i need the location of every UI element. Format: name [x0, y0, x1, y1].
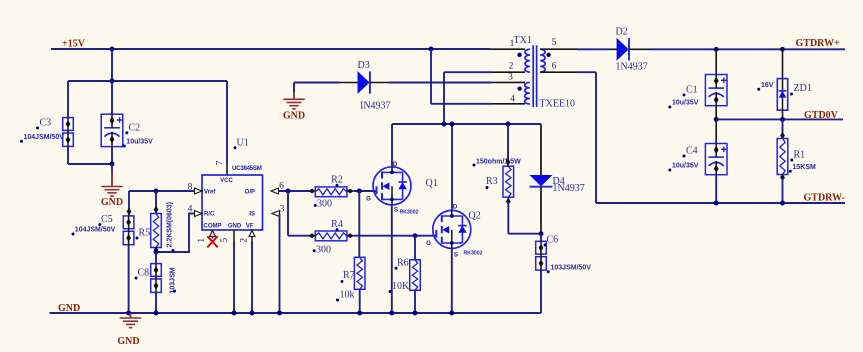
wire to ground D3 [293, 83, 295, 100]
wire D4 top lead [540, 124, 542, 175]
resistor R4 [308, 233, 316, 238]
svg-text:IN4937: IN4937 [360, 100, 391, 111]
node junction R2/R7 [357, 189, 362, 194]
wire Q1 source [391, 205, 393, 314]
node junction Q1 source gnd [389, 311, 394, 316]
wire C1 top lead [715, 49, 717, 75]
node junction R5/C8/RC [154, 250, 159, 255]
node junction C1/C4 [714, 117, 719, 122]
wire ZD1 top lead [782, 49, 784, 79]
svg-text:RK3002: RK3002 [400, 210, 419, 216]
capacitor C1 [705, 75, 727, 106]
pin 1 lead COMP [212, 230, 214, 239]
pin 4 arrow [195, 211, 203, 217]
node junction C2 top [110, 79, 115, 84]
svg-text:R6: R6 [397, 258, 409, 269]
svg-text:300: 300 [316, 245, 331, 256]
wire ground rail [50, 312, 542, 314]
diode D2 lead anode [609, 48, 617, 50]
diode D3 lead anode [339, 82, 358, 84]
svg-text:C8: C8 [138, 268, 150, 279]
node junction C5 gnd [126, 311, 131, 316]
wire C4 top lead [715, 119, 717, 144]
wire Vref net [129, 190, 195, 192]
svg-text:10u/35V: 10u/35V [672, 163, 699, 170]
svg-text:104JSM/50V: 104JSM/50V [24, 134, 65, 141]
svg-text:GTDRW+: GTDRW+ [796, 38, 841, 49]
node junction pin5 gnd [232, 311, 237, 316]
wire VCC distribution [68, 80, 227, 82]
wire VCC pin7 [226, 81, 228, 163]
wire C6 bottom lead [540, 270, 542, 313]
wire +15V to TX pin4 [430, 49, 432, 104]
wire GTDRW+ rail [650, 48, 845, 50]
wire TX pin6 to GTDRW- [577, 71, 596, 73]
svg-text:R/C: R/C [204, 212, 215, 218]
node junction C1 top [714, 47, 719, 52]
wire C2 branch drop [111, 49, 113, 81]
svg-text:VF: VF [246, 224, 254, 230]
svg-text:D2: D2 [616, 27, 628, 38]
pin 2 lead VF [251, 230, 253, 242]
ground symbol under C2 [101, 186, 123, 188]
svg-text:D: D [453, 204, 458, 211]
node junction TX pin2 drop [442, 122, 447, 127]
svg-text:Q2: Q2 [469, 211, 481, 222]
winding 3-4 TX1 [525, 82, 530, 104]
svg-text:COMP: COMP [204, 224, 222, 230]
svg-text:G: G [366, 196, 371, 203]
svg-text:Vref: Vref [204, 190, 216, 196]
diode D2 1N4937 [617, 38, 629, 61]
wire R5 top lead [155, 191, 157, 214]
svg-text:GND: GND [101, 197, 123, 208]
resistor R5 [151, 214, 162, 248]
node junction C2/C3 gnd [110, 162, 115, 167]
svg-text:10u/35V: 10u/35V [126, 139, 153, 146]
wire VF pin to rail [251, 241, 253, 313]
pin 7 lead [226, 163, 228, 175]
diode D3 lead cathode [370, 82, 389, 84]
wire IS to gnd rail [279, 214, 281, 314]
op-amp U1 body UC3845SM [202, 175, 263, 230]
zener diode ZD1 [777, 79, 787, 111]
transistor Q1 [373, 167, 411, 205]
pin 3 lead TX1 [491, 81, 525, 83]
wire R3 top lead [507, 124, 509, 167]
wire R5 bottom lead [155, 248, 157, 253]
node junction ZD1 top [780, 47, 785, 52]
wire D4 bottom lead [540, 188, 542, 234]
svg-text:U1: U1 [237, 138, 249, 149]
svg-text:10K: 10K [392, 281, 410, 292]
diode D3 IN4937 [358, 71, 370, 94]
svg-text:TX1: TX1 [514, 35, 532, 46]
svg-text:+15V: +15V [62, 39, 86, 50]
svg-text:104JSM/50V: 104JSM/50V [75, 227, 116, 234]
wire R3 to D4 node [508, 233, 541, 235]
svg-text:7: 7 [216, 160, 226, 165]
node junction R3 top [506, 122, 511, 127]
svg-text:VCC: VCC [220, 178, 233, 184]
wire Q2 drain [451, 124, 453, 211]
node junction Q2 source gnd [449, 311, 454, 316]
svg-text:103JSM: 103JSM [170, 267, 177, 293]
svg-text:3: 3 [280, 205, 285, 215]
svg-text:C3: C3 [40, 118, 52, 129]
no-connect cross on COMP [207, 236, 217, 247]
svg-text:5: 5 [220, 238, 230, 243]
svg-text:IS: IS [249, 212, 255, 218]
wire R3 bottom lead [507, 197, 509, 202]
winding 5-6 TX1 [540, 49, 545, 72]
wire drain rail [392, 123, 541, 125]
node junction O/P split [286, 189, 291, 194]
svg-text:ZD1: ZD1 [794, 83, 812, 94]
svg-text:C5: C5 [101, 214, 113, 225]
wire C4 bottom lead [715, 175, 717, 204]
transformer core TX1 [532, 45, 534, 107]
node junction R7 gnd [357, 311, 362, 316]
wire GTD0V rail [716, 118, 843, 120]
wire C8 bottom lead [155, 293, 157, 313]
svg-text:1N4937: 1N4937 [616, 62, 648, 73]
svg-text:TXEE10: TXEE10 [540, 99, 576, 110]
svg-text:3: 3 [508, 73, 513, 83]
svg-text:R5: R5 [139, 228, 151, 239]
wire C3 bottom lead [67, 147, 69, 164]
wire C3 top lead [67, 81, 69, 118]
svg-text:1N4937: 1N4937 [553, 183, 585, 194]
node junction R6 gnd [413, 311, 418, 316]
wire R2 to Q1 gate [354, 190, 377, 192]
phase dot winding 3 [517, 86, 521, 90]
wire C6 top lead [540, 234, 542, 242]
svg-text:R3: R3 [486, 176, 498, 187]
svg-text:2: 2 [509, 62, 514, 72]
svg-text:4: 4 [510, 95, 515, 105]
svg-text:2: 2 [239, 238, 249, 243]
svg-text:300: 300 [317, 199, 332, 210]
wire R/C net [189, 213, 195, 215]
phase dot winding 5 [546, 53, 550, 57]
pin 8 arrow [195, 188, 203, 194]
wire C5 top lead [128, 191, 130, 216]
node junction pin2 gnd [250, 311, 255, 316]
wire R6 bottom lead [414, 290, 416, 313]
svg-text:S: S [454, 252, 458, 259]
wire C5 bottom lead [128, 245, 130, 313]
capacitor C2 [101, 114, 123, 146]
svg-text:2.2KSM(0603): 2.2KSM(0603) [167, 202, 174, 248]
wire R4 to Q2 gate [354, 235, 437, 237]
diode D4 1N4937 [530, 175, 553, 186]
wire TX pin2 vertical [443, 72, 445, 124]
pin 1 lead TX1 [490, 48, 525, 50]
svg-text:1: 1 [197, 238, 207, 243]
svg-text:G: G [426, 240, 431, 247]
node junction R5 top [154, 189, 159, 194]
wire R7 top [358, 191, 360, 258]
svg-text:D3: D3 [358, 60, 370, 71]
wire R1 top lead [782, 119, 784, 139]
wire Q1 drain [391, 124, 393, 167]
node junction R6 top [413, 233, 418, 238]
wire +15V rail [51, 48, 490, 50]
svg-text:150ohm/1.5W: 150ohm/1.5W [476, 159, 521, 166]
svg-text:15KSM: 15KSM [793, 164, 817, 171]
capacitor C4 [705, 144, 727, 175]
diode D2 lead cathode [629, 48, 650, 50]
phase dot winding 1 [517, 53, 521, 57]
ground symbol main rail [130, 313, 132, 318]
wire Q2 source [451, 248, 453, 313]
pin 5 lead TX1 [540, 48, 577, 50]
svg-text:C1: C1 [686, 85, 698, 96]
pin 6 arrow [271, 188, 279, 194]
node junction pin3 gnd [277, 311, 282, 316]
resistor R2 [308, 189, 316, 194]
svg-text:GTD0V: GTD0V [804, 110, 839, 121]
pin 2 lead TX1 [491, 71, 525, 73]
svg-text:GND: GND [228, 224, 242, 230]
svg-text:O/P: O/P [245, 190, 255, 196]
node junction +15V/TX1 pin4 branch [429, 47, 434, 52]
capacitor C5 [123, 216, 134, 229]
capacitor C3 [63, 118, 74, 131]
svg-text:R7: R7 [343, 270, 355, 281]
svg-text:1: 1 [510, 39, 515, 49]
wire C2 top lead [111, 81, 113, 115]
wire gnd to D3 [294, 82, 339, 84]
resistor R6 [410, 260, 421, 291]
svg-text:10u/35V: 10u/35V [672, 100, 699, 107]
svg-text:C2: C2 [129, 123, 141, 134]
pin 5 lead GND [233, 230, 235, 242]
svg-text:GND: GND [283, 111, 305, 122]
resistor R3 [503, 166, 514, 197]
pin 6 lead TX1 [540, 71, 577, 73]
wire GTDRW- rail [596, 202, 845, 204]
svg-text:UC3845SM: UC3845SM [232, 165, 262, 172]
node junction C4 bottom [714, 201, 719, 206]
svg-text:R4: R4 [331, 219, 343, 230]
pin 4 lead TX1 [491, 103, 525, 105]
wire ZD1 bottom lead [782, 110, 784, 119]
svg-text:R2: R2 [331, 175, 343, 186]
wire R7 bottom [359, 289, 361, 313]
wire C1 bottom lead [715, 106, 717, 120]
resistor R7 [354, 257, 365, 289]
svg-text:10k: 10k [340, 290, 355, 301]
svg-text:S: S [394, 207, 398, 214]
node junction ZD1/R1 [780, 117, 785, 122]
svg-text:RK3002: RK3002 [464, 251, 483, 257]
svg-text:103JSM/50V: 103JSM/50V [551, 265, 592, 272]
capacitor C8 [151, 264, 162, 277]
wire C8 top lead [155, 252, 157, 264]
capacitor C6 [536, 241, 547, 254]
svg-text:5: 5 [552, 38, 557, 48]
svg-text:6: 6 [279, 182, 284, 192]
winding 1-2 TX1 [525, 49, 530, 72]
svg-text:C4: C4 [686, 146, 698, 157]
wire TX pin2 horizontal [444, 71, 491, 73]
wire D3 to TX pin3 [389, 82, 491, 84]
wire O/P down to R4 [287, 191, 289, 236]
svg-text:Q1: Q1 [426, 178, 438, 189]
pin 3 arrow [272, 211, 280, 217]
svg-text:D: D [393, 161, 398, 168]
wire C3-C2 bottom tie [68, 163, 112, 165]
node junction C8 gnd [154, 311, 159, 316]
wire R1 bottom lead [782, 175, 784, 179]
svg-text:GND: GND [117, 336, 139, 347]
node junction D4/R3/C6 [539, 231, 544, 236]
wire TX pin5 to D2 [577, 48, 609, 50]
svg-text:GTDRW-: GTDRW- [804, 193, 846, 204]
svg-text:16V: 16V [761, 82, 774, 89]
node junction +15V/C2 branch [110, 47, 115, 52]
ground symbol at D3 [283, 98, 305, 100]
svg-text:6: 6 [552, 62, 557, 72]
wire O/P to R2 [279, 190, 310, 192]
node junction R1 bottom [780, 201, 785, 206]
resistor R1 [777, 139, 788, 175]
transistor Q2 [433, 210, 471, 248]
node junction Q2 drain [450, 122, 455, 127]
wire C2 bottom lead [111, 147, 113, 164]
svg-text:R1: R1 [794, 150, 806, 161]
wire R6 top lead [414, 236, 416, 260]
wire GND pin to rail [233, 241, 235, 313]
wire to ground 1 [111, 164, 113, 177]
svg-text:C6: C6 [547, 235, 559, 246]
